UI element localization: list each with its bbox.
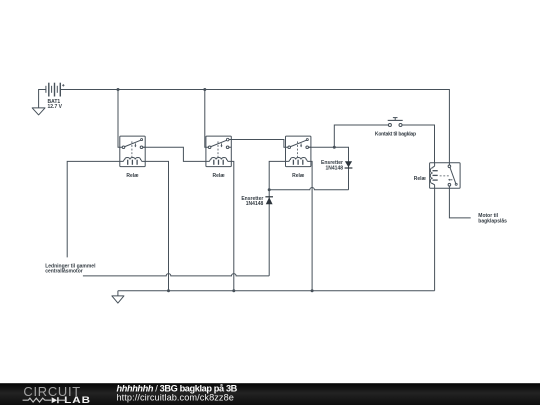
svg-text:LAB: LAB: [64, 395, 91, 405]
svg-text:Kontakt til bagklap: Kontakt til bagklap: [375, 131, 416, 137]
svg-text:12.7 V: 12.7 V: [48, 104, 63, 110]
svg-text:Relæ: Relæ: [212, 173, 225, 179]
svg-text:Relæ: Relæ: [292, 173, 305, 179]
svg-text:Relæ: Relæ: [126, 173, 139, 179]
svg-text:bagklapslås: bagklapslås: [478, 217, 507, 224]
svg-text:http://circuitlab.com/ck8zz8e: http://circuitlab.com/ck8zz8e: [117, 393, 234, 403]
svg-text:Relæ: Relæ: [414, 176, 427, 182]
svg-text:1N4148: 1N4148: [246, 201, 264, 207]
svg-text:1N4148: 1N4148: [325, 165, 343, 171]
svg-text:centrallåsmotor: centrallåsmotor: [45, 268, 83, 275]
